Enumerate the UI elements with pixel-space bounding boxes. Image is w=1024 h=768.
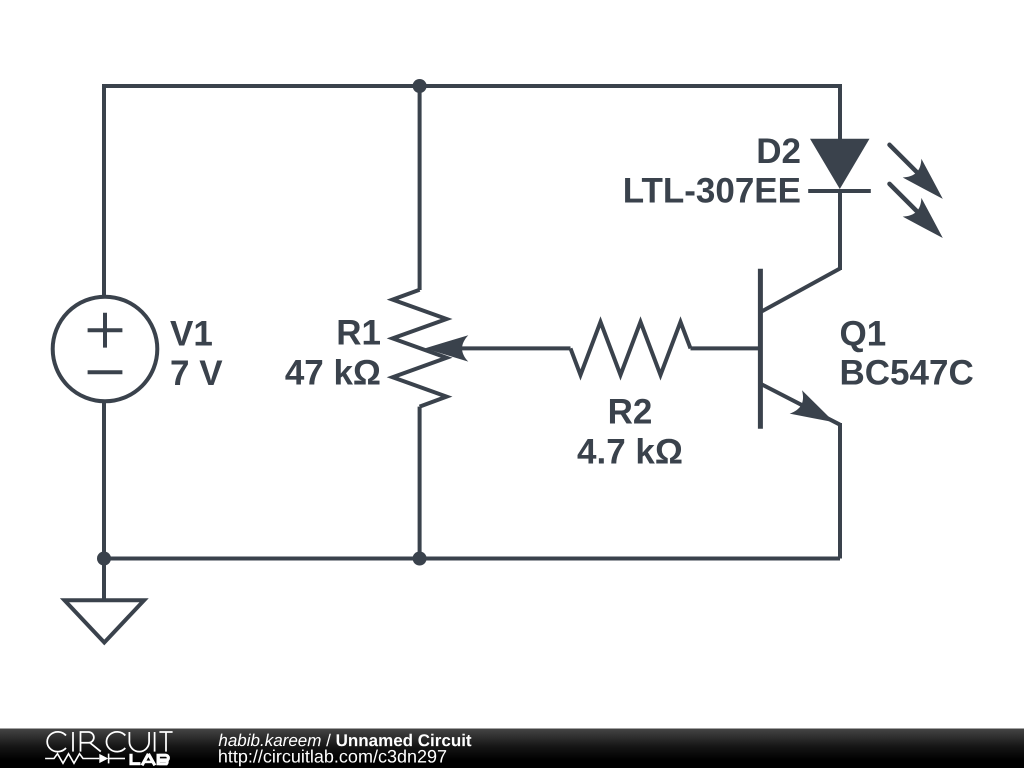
LED D2: [808, 139, 952, 248]
wire V1 bottom to ground rail: [102, 401, 106, 559]
wire R1 bottom lead: [418, 407, 422, 559]
svg-text:D2: D2: [756, 132, 801, 171]
wire top net: V+ rail: [104, 86, 840, 297]
svg-text:47 kΩ: 47 kΩ: [285, 354, 381, 393]
D2 cathode bar: [808, 189, 871, 193]
wire collector to LED: [838, 191, 842, 270]
svg-text:4.7 kΩ: 4.7 kΩ: [577, 433, 683, 472]
transistor Q1: [760, 269, 840, 429]
wire bottom ground rail: [104, 557, 840, 561]
svg-text:BC547C: BC547C: [840, 354, 974, 393]
Q1 collector lead: [762, 269, 841, 312]
svg-text:V1: V1: [170, 315, 213, 354]
V1 minus sign: [88, 370, 123, 374]
footer bar: [0, 729, 1024, 768]
D2 light arrow shafts: [890, 145, 917, 211]
node junction dot top: [413, 79, 427, 93]
Q1 base bar: [758, 269, 763, 429]
CircuitLab logo: CIRCUIT: [47, 732, 172, 752]
R1 wiper arrow: [425, 335, 469, 361]
svg-text:R1: R1: [336, 314, 381, 353]
potentiometer R1: [393, 290, 447, 407]
voltage source V1: [53, 297, 158, 402]
wire wiper to R2: [456, 346, 571, 350]
Q1 emitter lead: [762, 384, 841, 424]
svg-text:LTL-307EE: LTL-307EE: [623, 172, 801, 211]
wire R2 to base: [691, 346, 759, 350]
wire R1 top lead: [418, 86, 422, 290]
D2 anode triangle: [810, 139, 870, 189]
ground stem wire: [102, 559, 106, 601]
Q1 emitter arrow: [790, 390, 841, 434]
ground: [65, 559, 145, 643]
node junction dot bottom-left: [97, 552, 111, 566]
V1 circle: [53, 297, 158, 402]
CircuitLab logo: diode: [99, 754, 108, 763]
svg-text:http://circuitlab.com/c3dn297: http://circuitlab.com/c3dn297: [218, 746, 447, 766]
D2 light arrow head 1: [903, 159, 952, 208]
footer text line 1: [218, 731, 472, 767]
ground triangle: [65, 600, 145, 642]
CircuitLab logo: LAB: [131, 754, 168, 766]
V1 plus sign: [88, 313, 123, 348]
svg-text:7 V: 7 V: [170, 354, 223, 393]
svg-text:Q1: Q1: [840, 315, 887, 354]
D2 light arrow head 2: [903, 198, 952, 247]
svg-text:R2: R2: [608, 393, 653, 432]
resistor R2: [571, 322, 691, 375]
wire emitter down to ground rail: [838, 423, 842, 559]
CircuitLab logo: squiggle: [45, 754, 125, 764]
node junction dot bottom-mid: [413, 552, 427, 566]
